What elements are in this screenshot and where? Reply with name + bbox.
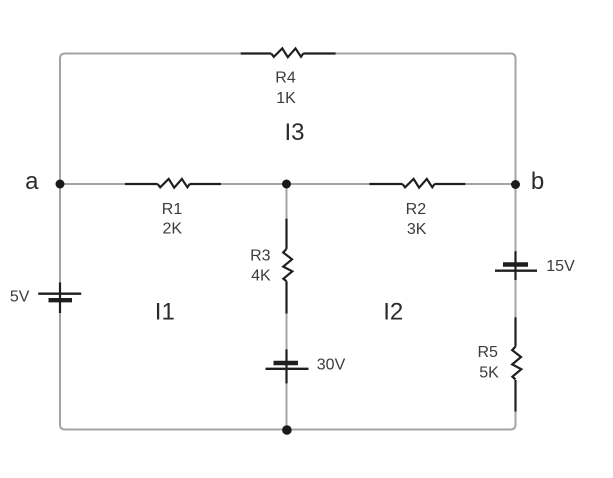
svg-text:R2: R2 [406, 201, 427, 218]
wire: middle horizontal wire a to b [60, 183, 516, 185]
mesh current label I1 [155, 299, 175, 326]
label R2 value 3K [406, 201, 427, 238]
label 15V [546, 258, 575, 275]
label R5 value 5K [477, 344, 499, 382]
resistor R4 [241, 48, 336, 57]
node a label [25, 168, 39, 195]
resistor R2 [369, 179, 465, 188]
svg-text:I1: I1 [155, 299, 175, 326]
resistor R3 [283, 219, 292, 314]
svg-text:4K: 4K [251, 268, 271, 285]
label R1 value 2K [162, 201, 183, 238]
label 5V [10, 289, 30, 306]
svg-text:I2: I2 [383, 299, 403, 326]
svg-text:5K: 5K [479, 365, 499, 382]
svg-text:1K: 1K [276, 90, 296, 107]
svg-text:5V: 5V [10, 289, 30, 306]
svg-text:b: b [531, 168, 544, 195]
mesh current label I3 [284, 119, 304, 146]
wire: center vertical wire [286, 184, 288, 430]
svg-text:I3: I3 [284, 119, 304, 146]
node: bottom junction dot [282, 425, 292, 435]
label R3 value 4K [250, 247, 271, 284]
svg-text:R4: R4 [275, 70, 296, 87]
battery V3 15V [495, 251, 537, 280]
svg-text:R3: R3 [250, 247, 271, 264]
resistor R5 [512, 317, 521, 411]
svg-text:a: a [25, 168, 39, 195]
svg-text:30V: 30V [317, 357, 346, 374]
svg-text:R5: R5 [477, 344, 498, 361]
battery V2 30V [266, 349, 309, 383]
svg-text:3K: 3K [407, 221, 427, 238]
battery V1 5V [38, 283, 81, 314]
mesh current label I2 [383, 299, 403, 326]
resistor R1 [125, 179, 221, 188]
node a junction dot [56, 180, 65, 189]
label 30V [317, 357, 346, 374]
node b label [531, 168, 544, 195]
svg-text:15V: 15V [546, 258, 575, 275]
svg-text:R1: R1 [162, 201, 183, 218]
wire: outer rectangle loop [60, 54, 516, 430]
label R4 value 1K [275, 70, 296, 108]
svg-text:2K: 2K [163, 221, 183, 238]
node b junction dot [511, 180, 520, 189]
node: center junction dot [282, 180, 291, 189]
